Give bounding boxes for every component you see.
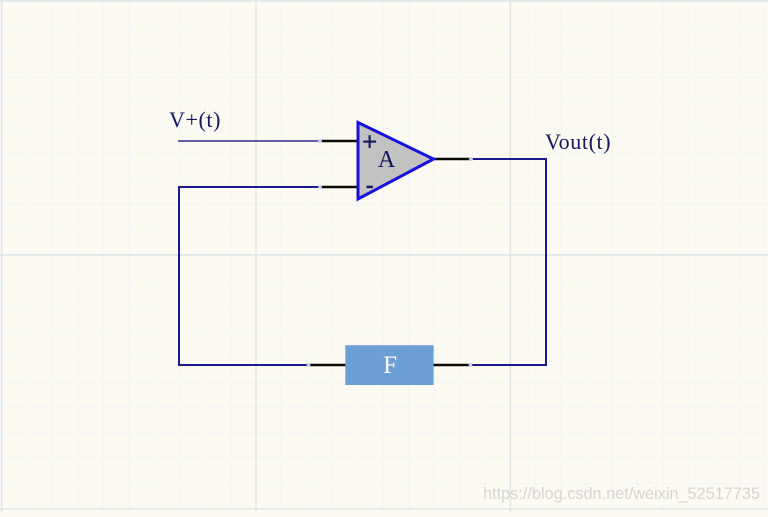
svg-text:V+(t): V+(t) xyxy=(169,107,221,132)
svg-text:https://blog.csdn.net/weixin_5: https://blog.csdn.net/weixin_52517735 xyxy=(483,485,760,503)
svg-text:F: F xyxy=(383,352,397,379)
svg-text:A: A xyxy=(378,147,396,173)
svg-text:Vout(t): Vout(t) xyxy=(545,129,611,154)
